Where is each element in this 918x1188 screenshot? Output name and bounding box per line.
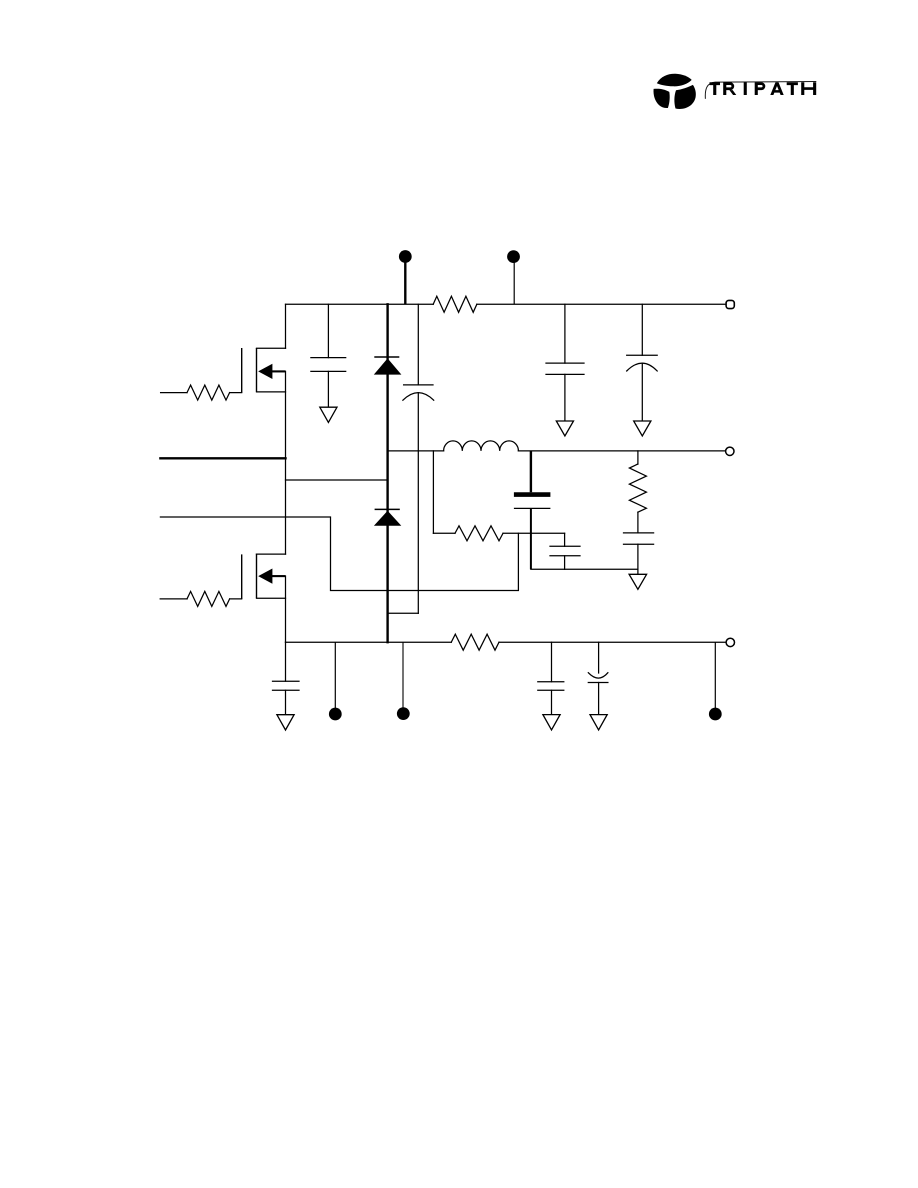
wire diode rail to C2 bottom (388, 612, 419, 614)
wire inductor left down leg (432, 451, 434, 533)
ground below C3 (556, 421, 573, 436)
resistor R3 on top bus (433, 296, 477, 312)
wire bottom bus (286, 641, 727, 643)
terminal circle output bottom (726, 638, 734, 646)
capacitor C10 polarized (588, 642, 608, 714)
resistor R1 at gate of Q1 (161, 385, 242, 400)
wire top supply bus (286, 303, 727, 305)
wire snubber bottom junction (531, 568, 638, 570)
transistor Q2 body (242, 554, 286, 599)
capacitor C1 (311, 304, 346, 407)
node dot J3 with stem (329, 642, 342, 720)
capacitor C8 (273, 642, 300, 714)
capacitor C4 polarized (627, 304, 658, 421)
wire rail to diode branch (286, 479, 388, 481)
ground below C9 (543, 715, 560, 730)
resistor R2 at gate of Q2 (160, 591, 242, 606)
capacitor C2 polarized (403, 304, 434, 613)
resistor R4 with wire (433, 526, 564, 541)
node dot J1 with stem (399, 250, 412, 304)
wire mid output bus (388, 450, 726, 452)
wire thick diode rail (386, 304, 388, 642)
ground below C10 (590, 715, 607, 730)
wire source rail Q2 to bottom bus (285, 576, 287, 642)
Tripath logo swoosh line (705, 82, 816, 99)
wire source rail Q1 to drain Q2 (285, 371, 287, 554)
wire thick input line 1 (160, 457, 285, 459)
Tripath logo wordmark text (710, 82, 817, 95)
terminal circle output mid (726, 447, 734, 455)
ground below C7 (629, 574, 647, 589)
transistor Q1 body (242, 348, 286, 393)
node dot J4 with stem (397, 642, 410, 720)
diode D2 (374, 509, 401, 525)
diode D1 (374, 357, 402, 375)
ground below C4 (634, 421, 651, 436)
resistor R5 vertical (629, 451, 646, 533)
Tripath logo icon (653, 74, 695, 109)
capacitor C9 (538, 642, 564, 714)
terminal square output top (726, 300, 734, 308)
wire drain rail segment Q1 (285, 304, 287, 348)
resistor R6 on bottom bus (451, 634, 499, 650)
node dot J2 with stem (507, 250, 520, 304)
capacitor C6 (550, 533, 580, 569)
capacitor C7 (624, 533, 654, 574)
inductor L1 (444, 441, 519, 451)
ground below C1 (320, 407, 337, 422)
capacitor C3 (546, 304, 584, 421)
wire input line 2 to feedback (160, 517, 518, 591)
node dot J5 with stem (709, 642, 722, 720)
capacitor C5 thick plate (514, 451, 551, 569)
ground below C8 (277, 715, 294, 730)
